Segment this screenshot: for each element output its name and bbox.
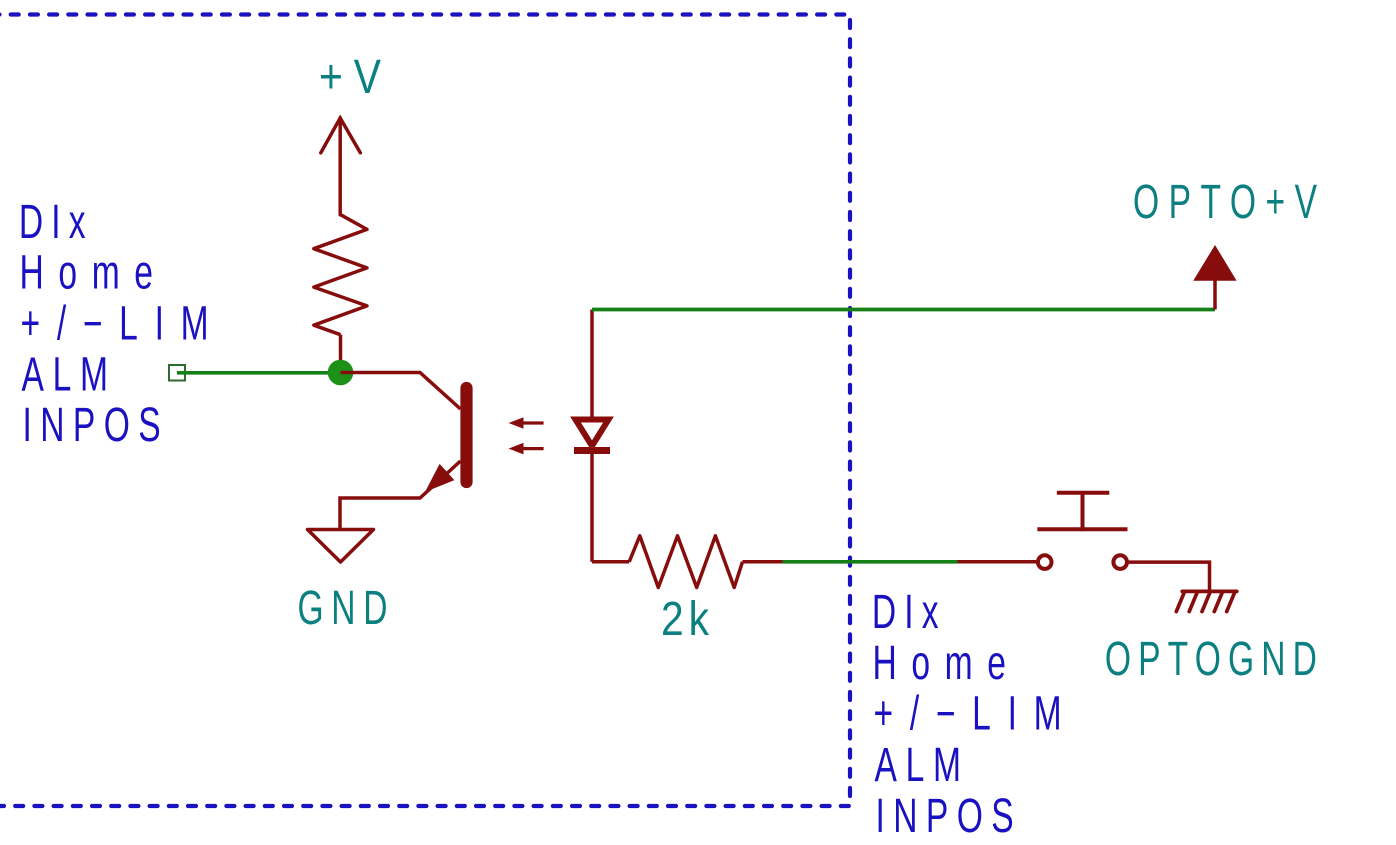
power symbol +V arrow xyxy=(321,118,361,215)
wire resistor to junction xyxy=(339,335,343,373)
wire LED to 2k resistor xyxy=(592,560,629,564)
ground GND symbol xyxy=(308,530,374,563)
power symbol OPTO+V stem xyxy=(1213,278,1217,310)
switch SW1 left contact xyxy=(1038,555,1052,569)
power symbol OPTO+V triangle xyxy=(1193,245,1236,281)
wire to switch pin xyxy=(958,560,1037,564)
resistor R1 (vertical) xyxy=(314,215,367,335)
chassis ground OPTOGND symbol xyxy=(1176,591,1237,611)
wire switch to chassis ground xyxy=(1129,562,1210,591)
opto transistor emitter wire xyxy=(340,461,461,529)
LED anode wire xyxy=(590,310,594,422)
LED cathode bar xyxy=(574,447,610,454)
junction dot xyxy=(328,360,354,386)
opto transistor collector wire xyxy=(341,373,461,410)
opto transistor base bar xyxy=(460,388,472,482)
emitter arrow xyxy=(425,464,454,492)
dashed sheet boundary box xyxy=(0,15,850,807)
LED D1 triangle xyxy=(576,420,609,447)
LED cathode wire xyxy=(590,449,594,562)
switch SW1 right contact xyxy=(1113,555,1127,569)
wire (green) to OPTO+V xyxy=(592,308,1215,312)
resistor R2 2k xyxy=(629,536,742,588)
svg-text:DIx: DIx xyxy=(872,584,939,638)
light arrow 1 xyxy=(509,417,544,454)
svg-text:INPOS: INPOS xyxy=(22,397,160,451)
wire stub right of 2k xyxy=(743,560,783,564)
svg-text:ALM: ALM xyxy=(21,347,107,401)
light arrow 2 xyxy=(522,447,544,450)
wire (green) 2k to switch xyxy=(783,560,958,564)
svg-text:DIx: DIx xyxy=(19,194,86,248)
svg-text:GND: GND xyxy=(298,580,388,634)
open wire-end square xyxy=(169,365,185,381)
switch actuator xyxy=(1037,493,1127,532)
wire (green) label to junction xyxy=(177,371,340,375)
svg-text:INPOS: INPOS xyxy=(875,788,1013,840)
svg-text:ALM: ALM xyxy=(875,737,961,791)
